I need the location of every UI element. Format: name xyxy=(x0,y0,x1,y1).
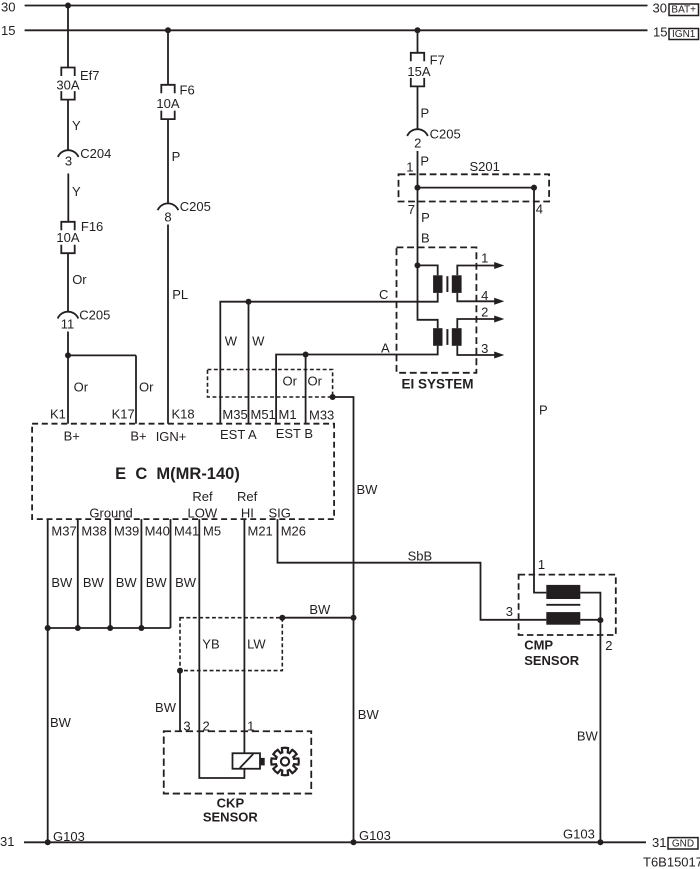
svg-text:C204: C204 xyxy=(80,146,111,161)
svg-text:EST A: EST A xyxy=(220,427,257,442)
svg-text:3: 3 xyxy=(183,718,190,733)
svg-text:31: 31 xyxy=(0,834,14,849)
svg-text:C205: C205 xyxy=(430,127,461,142)
svg-text:M35: M35 xyxy=(222,407,247,422)
svg-text:BW: BW xyxy=(357,482,379,497)
svg-text:Ground: Ground xyxy=(89,506,132,521)
svg-text:3: 3 xyxy=(481,341,488,356)
svg-text:M39: M39 xyxy=(114,524,139,539)
svg-text:M38: M38 xyxy=(81,524,106,539)
svg-text:2: 2 xyxy=(481,304,488,319)
svg-text:P: P xyxy=(172,149,181,164)
svg-text:F6: F6 xyxy=(180,83,195,98)
svg-text:M37: M37 xyxy=(51,524,76,539)
svg-text:W: W xyxy=(225,333,238,348)
svg-text:30: 30 xyxy=(1,0,15,15)
svg-text:15: 15 xyxy=(653,25,667,40)
svg-text:M26: M26 xyxy=(281,524,306,539)
svg-text:1: 1 xyxy=(538,557,545,572)
svg-text:15: 15 xyxy=(1,23,15,38)
svg-text:K1: K1 xyxy=(50,406,66,421)
svg-text:PL: PL xyxy=(172,287,188,302)
svg-text:31: 31 xyxy=(652,835,666,850)
svg-text:BAT+: BAT+ xyxy=(671,5,696,16)
svg-text:T6B15017: T6B15017 xyxy=(643,854,700,869)
svg-text:P: P xyxy=(421,210,430,225)
svg-text:B+: B+ xyxy=(64,428,80,443)
svg-text:E C M(MR-140): E C M(MR-140) xyxy=(115,465,240,483)
svg-text:1: 1 xyxy=(247,718,254,733)
svg-text:BW: BW xyxy=(50,715,72,730)
svg-text:Or: Or xyxy=(308,373,323,388)
svg-text:Or: Or xyxy=(139,379,154,394)
svg-text:Or: Or xyxy=(283,373,298,388)
svg-text:3: 3 xyxy=(65,154,72,169)
svg-text:IGN+: IGN+ xyxy=(156,429,187,444)
svg-text:M21: M21 xyxy=(248,524,273,539)
svg-text:BW: BW xyxy=(83,575,105,590)
svg-text:10A: 10A xyxy=(156,96,179,111)
svg-text:1: 1 xyxy=(406,160,413,175)
svg-text:CMP: CMP xyxy=(524,638,553,653)
svg-text:C205: C205 xyxy=(79,308,110,323)
svg-text:B+: B+ xyxy=(130,428,146,443)
svg-text:Ref: Ref xyxy=(192,489,213,504)
svg-text:P: P xyxy=(420,154,429,169)
svg-text:HI: HI xyxy=(241,506,254,521)
svg-text:Ef7: Ef7 xyxy=(80,68,100,83)
svg-text:K17: K17 xyxy=(112,406,135,421)
svg-text:SIG: SIG xyxy=(269,506,291,521)
svg-text:1: 1 xyxy=(481,250,488,265)
svg-text:15A: 15A xyxy=(407,64,430,79)
svg-text:30A: 30A xyxy=(56,77,79,92)
svg-text:F16: F16 xyxy=(81,219,103,234)
svg-text:F7: F7 xyxy=(430,52,445,67)
svg-text:BW: BW xyxy=(51,575,73,590)
svg-text:IGN1: IGN1 xyxy=(672,29,696,40)
svg-text:G103: G103 xyxy=(563,827,595,842)
svg-text:Or: Or xyxy=(74,379,89,394)
svg-text:P: P xyxy=(539,402,548,417)
svg-text:YB: YB xyxy=(202,636,219,651)
svg-text:Y: Y xyxy=(72,184,81,199)
svg-text:M40: M40 xyxy=(145,524,170,539)
svg-text:4: 4 xyxy=(481,288,488,303)
svg-text:2: 2 xyxy=(203,718,210,733)
svg-text:M41: M41 xyxy=(174,524,199,539)
svg-text:Or: Or xyxy=(72,272,87,287)
svg-text:7: 7 xyxy=(408,202,415,217)
svg-text:M5: M5 xyxy=(203,524,221,539)
svg-text:M51: M51 xyxy=(251,407,276,422)
svg-text:2: 2 xyxy=(605,638,612,653)
svg-text:Ref: Ref xyxy=(237,489,258,504)
svg-text:W: W xyxy=(252,333,265,348)
svg-text:BW: BW xyxy=(146,575,168,590)
svg-text:BW: BW xyxy=(358,707,380,722)
svg-text:P: P xyxy=(421,106,430,121)
svg-text:GND: GND xyxy=(672,838,694,849)
svg-text:LOW: LOW xyxy=(188,506,218,521)
svg-text:A: A xyxy=(381,340,390,355)
svg-text:EST B: EST B xyxy=(276,426,313,441)
svg-text:8: 8 xyxy=(164,210,171,225)
svg-text:BW: BW xyxy=(309,602,331,617)
svg-text:BW: BW xyxy=(175,575,197,590)
svg-text:B: B xyxy=(421,230,430,245)
svg-text:K18: K18 xyxy=(172,406,195,421)
svg-text:SENSOR: SENSOR xyxy=(524,653,580,668)
svg-text:30: 30 xyxy=(653,1,667,16)
svg-text:SbB: SbB xyxy=(408,548,433,563)
svg-text:SENSOR: SENSOR xyxy=(203,810,259,825)
svg-text:BW: BW xyxy=(577,729,599,744)
svg-text:G103: G103 xyxy=(359,828,391,843)
svg-text:S201: S201 xyxy=(470,159,500,174)
svg-text:Y: Y xyxy=(72,118,81,133)
svg-text:CKP: CKP xyxy=(217,796,245,811)
svg-text:2: 2 xyxy=(414,136,421,151)
svg-text:3: 3 xyxy=(506,604,513,619)
svg-text:M1: M1 xyxy=(279,407,297,422)
svg-text:C: C xyxy=(379,287,388,302)
svg-text:M33: M33 xyxy=(309,407,334,422)
svg-text:10A: 10A xyxy=(56,230,79,245)
svg-text:BW: BW xyxy=(155,700,177,715)
svg-text:11: 11 xyxy=(61,317,75,332)
svg-text:4: 4 xyxy=(536,201,543,216)
svg-text:G103: G103 xyxy=(53,829,85,844)
svg-text:EI SYSTEM: EI SYSTEM xyxy=(401,377,473,392)
svg-text:LW: LW xyxy=(247,636,266,651)
svg-text:C205: C205 xyxy=(180,199,211,214)
svg-text:BW: BW xyxy=(116,575,138,590)
